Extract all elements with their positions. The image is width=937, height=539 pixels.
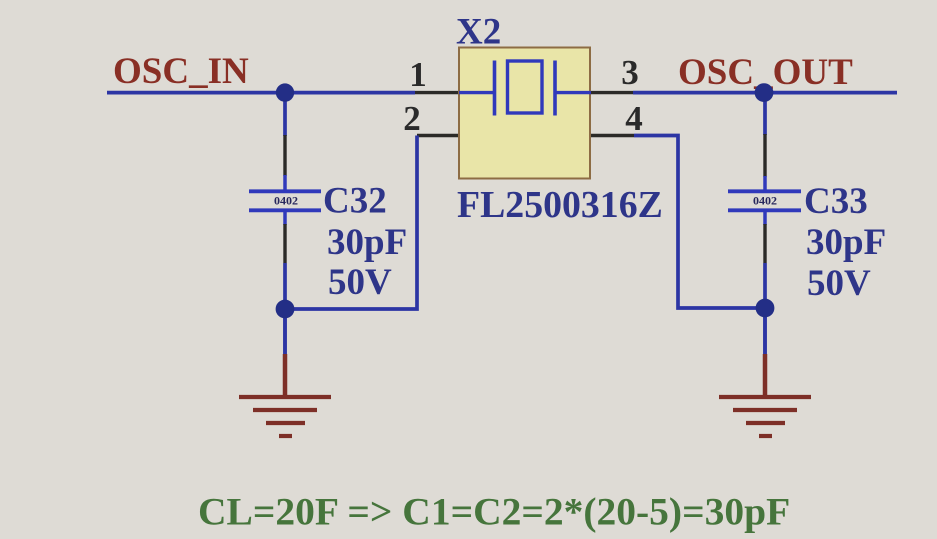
wire: top-right net OSC_OUT horizontal (633, 91, 897, 95)
svg-text:CL=20F => C1=C2=2*(20-5)=30pF: CL=20F => C1=C2=2*(20-5)=30pF (198, 490, 790, 534)
pin X2.3 stub (591, 91, 633, 94)
capacitor C33 bottom pin (black) (763, 224, 766, 263)
svg-text:X2: X2 (456, 12, 501, 53)
pin X2.4 stub (591, 134, 634, 137)
wire: junction B to pin 2 riser (285, 136, 417, 310)
wire: C33 bottom to junction D (763, 263, 767, 308)
capacitor C32 top pin (black) (283, 135, 286, 176)
junction node B (276, 300, 295, 319)
ground (right) (719, 354, 811, 436)
wire: junction A down to C32 top pin (283, 93, 287, 136)
svg-text:FL2500316Z: FL2500316Z (457, 184, 663, 226)
capacitor C33 top pin (black) (763, 134, 766, 177)
crystal X2 symbol (459, 61, 591, 116)
capacitor C33 symbol (728, 176, 801, 225)
wire: junction C down to C33 top pin (763, 93, 767, 135)
svg-text:0402: 0402 (753, 194, 777, 208)
svg-text:OSC_IN: OSC_IN (113, 51, 249, 92)
svg-text:30pF: 30pF (327, 222, 407, 263)
capacitor C32 bottom pin (black) (283, 224, 286, 263)
svg-text:1: 1 (409, 55, 427, 94)
junction node C (OSC_OUT) (755, 83, 774, 102)
svg-text:0402: 0402 (274, 194, 298, 208)
pin X2.1 stub (415, 91, 459, 94)
wire: junction D down to ground (763, 308, 767, 356)
wire: top-left net OSC_IN horizontal (107, 91, 415, 95)
junction node D (756, 299, 775, 318)
crystal X2 body (459, 48, 590, 179)
svg-text:30pF: 30pF (806, 222, 886, 263)
wire: junction B down to ground (283, 309, 287, 356)
junction node A (OSC_IN) (276, 83, 294, 101)
ground (left) (239, 354, 331, 436)
wire: C32 bottom to junction B (283, 263, 287, 309)
svg-text:50V: 50V (328, 262, 392, 303)
svg-text:C33: C33 (804, 181, 868, 222)
wire: junction D to pin 4 riser (634, 136, 765, 309)
capacitor C32 symbol (249, 175, 321, 225)
svg-text:2: 2 (403, 99, 421, 138)
svg-text:C32: C32 (323, 181, 387, 222)
svg-text:3: 3 (621, 53, 639, 92)
svg-text:50V: 50V (807, 263, 871, 304)
svg-text:4: 4 (625, 99, 643, 138)
pin X2.2 stub (417, 134, 459, 137)
